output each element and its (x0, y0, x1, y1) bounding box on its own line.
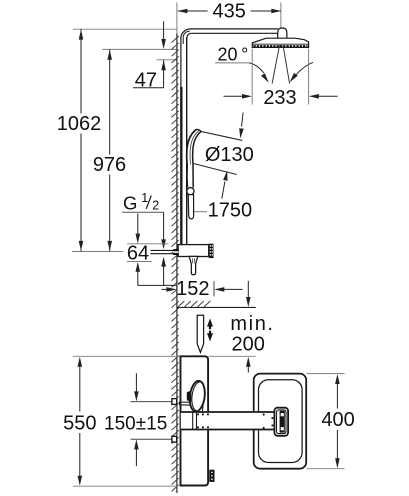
wall line (176, 34, 178, 494)
thermostat valve body (side view) (178, 245, 209, 257)
top shower arm (horizontal) (181, 29, 278, 44)
label min. 200 (230, 313, 274, 356)
dimension 976 (vertical) (93, 49, 126, 251)
bracket line to 152 (138, 284, 177, 286)
minimum clearance ceiling line (177, 301, 256, 307)
svg-text:152: 152 (176, 278, 209, 300)
G 1/2 pointer arrow upper (161, 212, 166, 249)
lower thermostat body (181, 356, 209, 485)
dimension diameter 130 (hand shower) (205, 113, 254, 199)
extension line: top arm reference (1062 top) (73, 28, 177, 30)
svg-text:976: 976 (93, 154, 126, 176)
arm joint dots left (197, 413, 209, 428)
dimension 1062 (vertical) (57, 29, 102, 251)
svg-text:200: 200 (232, 334, 265, 356)
thermostat dial knob (188, 380, 206, 412)
reference line 150 top (131, 401, 172, 403)
G 1/2 pointer arrow lower (161, 257, 166, 286)
inlet connection lower (172, 436, 177, 442)
supply pipe (G 1/2) (151, 250, 174, 253)
extension line: 435 right (shower head centre) (280, 2, 282, 44)
dimension 150 plus-minus 15 (inlet spacing) (104, 373, 167, 466)
reference line 64 bottom (127, 261, 152, 263)
svg-text:Ø130: Ø130 (205, 144, 254, 166)
dimension min200 lower arrow (246, 357, 251, 373)
extension line: 435 left (above wall) (176, 2, 178, 34)
wall hatching (172, 36, 179, 491)
knob neck (196, 400, 204, 413)
hand shower hose connector (188, 195, 193, 219)
dimension 47 (133, 21, 166, 91)
extension line 550 bottom (73, 485, 178, 487)
thermostat control knob (checkered end) (209, 244, 214, 258)
extension line 152 right (213, 281, 215, 296)
dimension min200 upper arrow (246, 281, 251, 307)
extension line: 47 lower reference (157, 59, 177, 61)
hand shower holder (274, 408, 288, 436)
label G 1/2 with underline (122, 191, 163, 214)
svg-text:20 °: 20 ° (218, 45, 249, 65)
dimension 233 (head width) (224, 87, 338, 109)
label 1750 (hose length) (194, 200, 252, 222)
extension line: valve centre (1062/976 bottom) (72, 251, 123, 253)
extension line 400 top (307, 373, 345, 375)
svg-text:min.: min. (230, 313, 274, 335)
dimension 64 (valve body height) (127, 214, 149, 286)
swivel arm (181, 412, 275, 430)
extension line 233 left (251, 49, 253, 105)
arm joint dots right (263, 414, 277, 429)
reference line 150 bottom (131, 438, 172, 440)
dimension 435 (wall to head centre) (177, 1, 281, 23)
svg-text:47: 47 (135, 70, 157, 92)
extension line 233 right (308, 49, 310, 105)
extension line 400 bottom (307, 468, 345, 470)
wall connection block (173, 249, 178, 255)
shower rail / vertical pipe (181, 37, 187, 245)
shower head ball joint dome (278, 28, 287, 38)
connector block body bottom (209, 470, 214, 482)
lift-off pin symbol (197, 315, 203, 352)
svg-text:233: 233 (263, 87, 296, 109)
svg-text:1062: 1062 (57, 113, 102, 135)
dimension 550 (body height) (63, 357, 96, 486)
svg-text:150±15: 150±15 (104, 413, 167, 434)
label 20 deg with underline (215, 45, 249, 65)
dimension 400 (tray height) (321, 374, 354, 468)
reference line 64 top (127, 243, 169, 245)
leader arrow left (20 deg) (249, 63, 268, 83)
svg-text:400: 400 (321, 409, 354, 431)
leader arrow right (20 deg) (290, 62, 313, 82)
extension line 550 top (73, 355, 181, 357)
svg-text:550: 550 (63, 412, 96, 434)
svg-text:G: G (123, 192, 137, 213)
inlet connection upper (172, 399, 177, 405)
knob stem (187, 391, 192, 403)
svg-text:1: 1 (141, 191, 148, 205)
dimension 152 (valve depth) (162, 278, 243, 300)
hose connection nipple (189, 256, 198, 274)
extension line body top right (209, 355, 256, 357)
extension line: 976 top reference (102, 48, 177, 50)
hand shower head (186, 129, 242, 188)
knob escutcheon (179, 402, 190, 405)
overhead shower head (252, 38, 308, 47)
slider pivot knob (187, 188, 194, 195)
shower tray (front view) (254, 374, 307, 469)
svg-text:64: 64 (127, 242, 149, 264)
spray line right (283, 45, 290, 83)
extension line 152 left (176, 281, 178, 296)
svg-text:1750: 1750 (208, 200, 253, 222)
spray line left (272, 45, 279, 83)
up-down arrow symbol (207, 318, 213, 341)
svg-text:435: 435 (213, 1, 246, 23)
svg-text:2: 2 (152, 199, 159, 213)
